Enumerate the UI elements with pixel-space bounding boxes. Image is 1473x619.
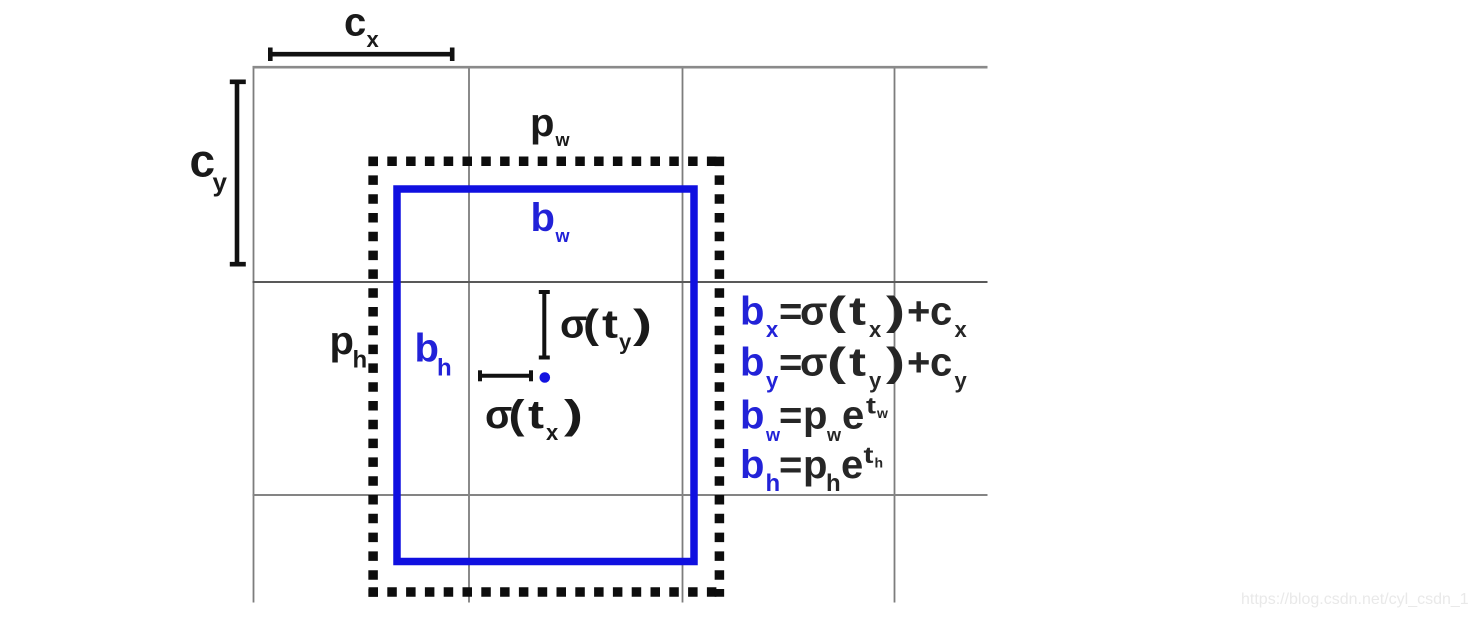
svg-text:y: y [213,167,228,197]
equation line 3: b_w = p_w e^(t_w) [740,393,888,446]
right edge [715,157,725,597]
dotted anchor box (prior) [369,157,725,597]
grid vertical line 4 [894,66,896,603]
svg-text:w: w [555,130,571,150]
center point (blue dot) [540,372,551,383]
svg-text:t: t [864,442,874,468]
svg-text:x: x [955,317,968,342]
svg-text:b: b [740,394,764,438]
svg-text:x: x [546,420,559,445]
svg-text:x: x [766,317,779,342]
svg-text:+: + [907,341,930,385]
svg-text:c: c [190,135,216,187]
svg-text:y: y [869,368,882,393]
svg-text:p: p [330,319,354,363]
svg-text:t: t [849,341,866,385]
svg-text:b: b [415,327,439,371]
svg-text:σ: σ [800,341,827,385]
svg-text:σ: σ [800,290,827,334]
svg-text:y: y [619,330,632,355]
svg-text:=: = [779,290,802,334]
equation line 4: b_h = p_h e^(t_h) [740,442,883,497]
svg-text:b: b [740,443,764,487]
equation line 1: b_x = sigma(t_x)+c_x [740,290,968,342]
svg-text:): ) [886,341,905,385]
svg-text:p: p [530,101,554,145]
sigma(t_y) vertical bracket [539,290,550,360]
svg-text:h: h [826,470,841,497]
svg-text:t: t [849,290,866,334]
svg-text:): ) [633,303,652,347]
svg-text:w: w [826,425,842,445]
grid horizontal line 2 [253,281,988,283]
svg-text:(: ( [827,290,847,334]
svg-text:(: ( [509,393,526,437]
top edge [369,157,725,167]
svg-text:h: h [766,470,781,497]
svg-text:b: b [740,290,764,334]
svg-text:p: p [803,394,827,438]
svg-text:+: + [907,290,930,334]
grid vertical line 1 [253,66,255,603]
svg-text:t: t [528,393,544,437]
svg-text:t: t [602,303,618,347]
equation line 2: b_y = sigma(t_y)+c_y [740,341,968,394]
svg-text:): ) [886,290,905,334]
svg-text:w: w [876,405,888,421]
svg-text:e: e [841,443,863,487]
svg-text:c: c [930,341,952,385]
grid vertical line 3 [682,66,684,603]
grid horizontal line 1 (top) [253,66,988,69]
left edge [368,157,378,597]
svg-text:c: c [344,1,366,45]
svg-text:p: p [803,443,827,487]
svg-text:(: ( [827,341,847,385]
sigma(t_x) horizontal bracket [478,370,533,381]
svg-text:h: h [875,455,884,471]
svg-text:h: h [437,355,452,382]
c_y measurement bracket [230,80,246,267]
svg-text:(: ( [583,303,600,347]
grid vertical line 2 [468,66,470,603]
svg-text:=: = [779,443,802,487]
svg-text:w: w [555,226,571,246]
c_x measurement bracket [268,48,455,62]
svg-text:b: b [531,196,555,240]
svg-text:y: y [955,368,968,393]
svg-text:): ) [564,393,583,437]
svg-text:t: t [866,393,876,419]
svg-text:https://blog.csdn.net/cyl_csdn: https://blog.csdn.net/cyl_csdn_1 [1241,591,1469,608]
svg-text:b: b [740,341,764,385]
svg-text:x: x [367,27,380,52]
svg-text:=: = [779,394,802,438]
svg-text:c: c [930,290,952,334]
bottom edge [369,587,725,597]
label sigma(t_x) [485,393,583,445]
svg-text:=: = [779,341,802,385]
svg-text:e: e [842,394,864,438]
svg-text:h: h [353,347,368,374]
svg-text:y: y [766,368,779,393]
svg-text:x: x [869,317,882,342]
grid horizontal line 3 [253,494,988,496]
blue predicted box [397,189,694,562]
label sigma(t_y) [560,303,652,355]
